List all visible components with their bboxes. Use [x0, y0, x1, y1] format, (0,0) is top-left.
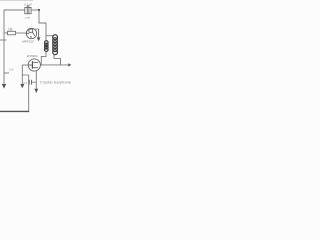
svg-text:Crystal Earphone: Crystal Earphone [40, 80, 71, 84]
svg-text:2N3904: 2N3904 [27, 54, 38, 58]
svg-text:0.1uF: 0.1uF [24, 2, 32, 6]
svg-text:0.1: 0.1 [23, 81, 27, 85]
svg-text:1M: 1M [8, 27, 13, 31]
svg-text:100K: 100K [9, 69, 15, 72]
svg-text:MPF102: MPF102 [22, 39, 34, 43]
svg-text:x-tal: x-tal [25, 15, 30, 19]
